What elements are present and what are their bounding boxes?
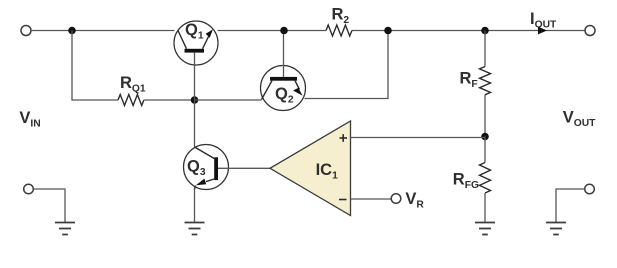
terminal VR (391, 194, 401, 204)
resistor RQ1 (118, 95, 144, 106)
node junction base Q1 (191, 96, 199, 104)
minus sign input (339, 199, 347, 201)
wire RQ1 to node (144, 99, 194, 101)
transistor Q3 (184, 145, 229, 190)
ground bottom-right (546, 223, 566, 235)
ground bottom-left (55, 223, 75, 235)
node junction at 284,30 (280, 27, 288, 35)
ground under RFG (475, 223, 495, 235)
resistor R2 (326, 25, 352, 36)
terminal input top-left (21, 26, 31, 36)
wire Q2 emitter to vertical (305, 31, 389, 99)
node junction at 72,30 (68, 27, 76, 35)
resistor RFG (480, 137, 491, 223)
plus sign input (340, 134, 348, 142)
ground under Q3 (185, 223, 205, 235)
wire Q3 base to op-amp (218, 167, 270, 169)
wire Q3 emitter to ground (194, 187, 196, 223)
wire top right segment (352, 30, 585, 32)
wire node to Q2 (195, 99, 262, 101)
wire Q1 base down (194, 53, 196, 100)
terminal bottom-right (585, 184, 595, 194)
current arrow IOUT (538, 27, 547, 35)
wire op-amp inverting input (351, 198, 392, 200)
wire top-left segment (31, 30, 175, 32)
transistor Q1 (174, 21, 218, 65)
terminal bottom-left (24, 184, 34, 194)
wire top mid segment (218, 30, 327, 32)
resistor RF (480, 31, 491, 137)
wire Q3 collector from node (194, 100, 196, 147)
wire bottom-left to ground (33, 189, 65, 223)
node junction at 485,136.5 (481, 133, 489, 141)
wire left vertical drop (72, 31, 118, 101)
wire Q2 collector up (283, 31, 285, 77)
wire op-amp noninverting input (351, 137, 486, 139)
node junction at 485,30 (481, 27, 489, 35)
node junction at 388,30 (384, 27, 392, 35)
op-amp IC1 (270, 121, 351, 216)
transistor Q2 (261, 66, 306, 111)
wire bottom-right to ground (556, 189, 585, 223)
terminal output top-right (585, 26, 595, 36)
